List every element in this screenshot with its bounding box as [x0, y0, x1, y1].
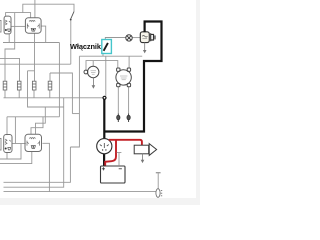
wire x15.4 drop — [14, 117, 16, 144]
wire relay2 pin to fuse3 — [34, 33, 36, 81]
ground arrow under M1 — [144, 42, 146, 50]
wire main bus y97.8 — [4, 97, 104, 99]
wire x59.4 riser — [58, 43, 60, 117]
wire L1 top feed — [6, 117, 8, 135]
wire switch drop — [70, 20, 72, 64]
wire fuse4 feed — [50, 73, 72, 114]
wire relay top bus — [6, 13, 31, 18]
wire L2 bottom pin exit — [0, 152, 32, 164]
wire B y107 — [28, 71, 64, 107]
wire lamp link left — [105, 38, 126, 40]
wire horizontal-1 y56.2 — [79, 55, 142, 57]
wire coil right riser — [128, 56, 130, 68]
fuse F1 — [3, 81, 7, 90]
ground arrow under C1 — [92, 78, 94, 86]
relay R2 — [25, 18, 41, 34]
wire left exit 1 — [0, 144, 21, 160]
switch lever stroke — [104, 43, 108, 51]
node junction — [103, 96, 106, 99]
wire x70.4 drop to rail — [4, 147, 71, 182]
wire L2 pin staircase 1 — [36, 107, 46, 134]
wire relay1 bottom pin — [8, 34, 10, 43]
relay R1 — [4, 16, 11, 34]
magneto G1 — [97, 139, 112, 154]
wire circle1 top pin — [92, 61, 94, 67]
thick wire node to magneto — [103, 99, 105, 139]
battery minus post — [117, 153, 122, 166]
wire L2 right to rail — [42, 143, 49, 191]
wire node riser — [105, 56, 107, 96]
relay L1 — [4, 135, 12, 153]
thick wire magneto to battery — [103, 153, 105, 167]
wire bracket fuse3 — [28, 70, 35, 72]
wire horizontal-2 y60.6 — [86, 61, 118, 71]
rectifier M1 — [140, 32, 155, 43]
wire lamp link right — [132, 37, 140, 39]
spark plug P1 — [117, 114, 120, 123]
wire bulb drop — [157, 173, 159, 188]
wire x63.7 long drop — [4, 98, 64, 187]
headlight unit C1 — [84, 66, 99, 77]
ground arrow under horn — [142, 154, 144, 160]
wire relay2 pin2 vertical — [34, 0, 36, 18]
wire relay1-relay2 link — [11, 25, 25, 27]
red wire magneto to horn — [109, 140, 142, 145]
wire L1-L2 link — [12, 143, 26, 145]
page margins — [196, 0, 200, 205]
relay L2 — [25, 134, 42, 151]
red wire branch to battery — [105, 140, 116, 166]
fuse F3 — [32, 81, 36, 90]
wire relay1 right riser — [14, 13, 16, 43]
wire plug drops — [117, 87, 119, 114]
ignition coil C2 — [116, 68, 131, 87]
switch S1 (kickstand) — [71, 12, 74, 20]
wire jog2 — [72, 113, 79, 115]
cropped component edge top-left — [0, 21, 1, 33]
label Wlacznik — [70, 42, 101, 51]
wire jog column — [70, 56, 79, 147]
wire fuse bottoms to bus — [4, 90, 6, 98]
wire H y58.4 to fuse2 — [0, 58, 20, 81]
wire fuse4 drop — [49, 73, 51, 81]
wire L2 pin staircase 2 — [31, 117, 43, 135]
fuse F2 — [17, 81, 21, 90]
horn H1 — [134, 144, 156, 156]
spark plug P2 — [127, 114, 130, 123]
wire top feed A — [23, 4, 74, 12]
wire H y64.2 headlight line — [0, 63, 71, 65]
battery BT1 — [101, 166, 126, 183]
terminal T-pin — [156, 172, 161, 174]
lamp X1 — [126, 35, 132, 41]
wire switchbox stub — [102, 54, 104, 57]
tail bulb B2 — [156, 189, 162, 198]
thick black harness wire — [104, 22, 161, 132]
wire relay2 right elbow — [41, 26, 46, 42]
wire L1 bottom pin — [6, 153, 8, 160]
wire C y116.8 — [7, 116, 59, 118]
wire bottom rail y191.6 — [4, 191, 157, 193]
cropped component edge bottom-left — [0, 139, 1, 151]
wire elbow to fuse1 — [5, 43, 15, 82]
switch box SW (Wlacznik) — [102, 40, 112, 54]
wire bottom bus y42 — [3, 42, 59, 44]
fuse F4 — [48, 81, 52, 90]
